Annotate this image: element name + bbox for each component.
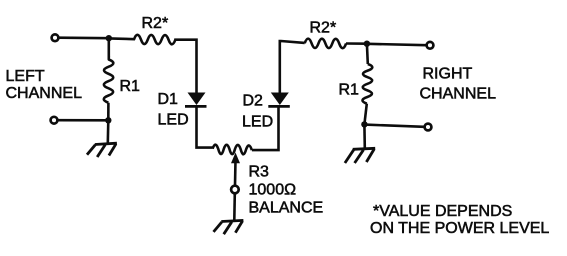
node junction right-bottom — [361, 121, 367, 127]
resistor R2 left — [134, 35, 175, 44]
svg-text:R2*: R2* — [142, 15, 169, 32]
ground left — [87, 143, 117, 157]
wire — [252, 107, 279, 151]
wire — [233, 194, 236, 221]
wire — [234, 160, 237, 185]
svg-text:LED: LED — [158, 112, 189, 129]
wire — [107, 121, 110, 144]
diode D1 LED — [188, 93, 206, 106]
wire — [363, 125, 366, 149]
wire — [109, 37, 135, 40]
potentiometer wiper arrow — [231, 153, 240, 164]
svg-text:*VALUE DEPENDS: *VALUE DEPENDS — [373, 203, 512, 220]
terminal bottom-left — [51, 117, 58, 124]
wire — [364, 104, 366, 125]
potentiometer R3 body — [213, 145, 252, 155]
node junction right-top — [364, 41, 370, 47]
terminal bottom-right — [425, 124, 432, 131]
wire — [174, 40, 196, 93]
svg-text:ON THE POWER LEVEL: ON THE POWER LEVEL — [370, 220, 549, 237]
svg-text:R3: R3 — [249, 163, 270, 180]
wire — [364, 125, 424, 127]
resistor R2 right — [305, 39, 346, 49]
svg-text:LEFT: LEFT — [6, 68, 45, 85]
svg-text:R1: R1 — [339, 81, 360, 98]
wire — [197, 106, 213, 147]
svg-text:D2: D2 — [243, 93, 264, 110]
ground right — [345, 148, 375, 163]
svg-text:CHANNEL: CHANNEL — [420, 86, 497, 103]
svg-text:R2*: R2* — [310, 19, 337, 36]
wire — [366, 44, 369, 64]
wiper terminal circle — [231, 186, 239, 194]
diode D2 LED — [271, 93, 289, 106]
wire — [58, 119, 108, 122]
resistor R1 left — [104, 57, 114, 103]
wire — [367, 44, 426, 45]
svg-text:R1: R1 — [120, 78, 141, 95]
svg-text:BALANCE: BALANCE — [249, 199, 324, 216]
ground middle — [214, 220, 244, 234]
node junction left-top — [106, 35, 112, 41]
wire — [108, 38, 111, 57]
svg-text:LED: LED — [242, 114, 273, 131]
wire — [280, 41, 305, 93]
wire — [107, 103, 110, 121]
svg-text:RIGHT: RIGHT — [423, 66, 473, 83]
wire — [346, 42, 367, 45]
node junction left-bottom — [105, 117, 111, 123]
wire — [59, 36, 109, 39]
terminal top-left — [52, 34, 59, 41]
terminal top-right — [427, 42, 434, 49]
resistor R1 right — [362, 64, 372, 104]
svg-text:1000Ω: 1000Ω — [249, 181, 297, 198]
svg-text:D1: D1 — [158, 91, 179, 108]
svg-text:CHANNEL: CHANNEL — [6, 85, 83, 102]
